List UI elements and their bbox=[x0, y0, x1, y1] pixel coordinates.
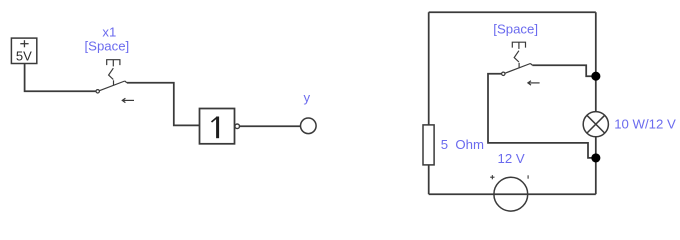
svg-text:5V: 5V bbox=[16, 49, 32, 64]
svg-text:x1: x1 bbox=[102, 24, 116, 39]
wire left side lower bbox=[428, 165, 430, 194]
plus mark bbox=[490, 175, 494, 179]
wire bottom side (through source) bbox=[429, 193, 596, 195]
switch S2 (pushbutton, normally open) bbox=[502, 42, 540, 85]
pivot contact circle bbox=[502, 72, 505, 75]
power supply B1 12V circle bbox=[494, 177, 528, 211]
svg-text:y: y bbox=[304, 90, 311, 105]
wire right side lower bbox=[595, 137, 597, 194]
direction arrow bbox=[123, 99, 134, 101]
wire from V1 to switch X1 bbox=[25, 64, 96, 92]
wire right side upper bbox=[595, 12, 597, 111]
svg-text:12 V: 12 V bbox=[498, 151, 525, 166]
switch X1 (pushbutton, normally open) bbox=[96, 60, 134, 103]
pivot contact circle bbox=[96, 90, 99, 93]
wire top side bbox=[429, 11, 596, 13]
spring zigzag bbox=[109, 68, 114, 79]
spring zigzag bbox=[514, 51, 519, 62]
resistor R1 5 Ohm bbox=[423, 125, 434, 165]
inverter bubble bbox=[235, 124, 240, 129]
svg-text:[Space]: [Space] bbox=[493, 22, 538, 37]
junction node below lamp bbox=[591, 153, 600, 162]
actuator cap bbox=[107, 60, 120, 65]
output terminal y bbox=[301, 118, 317, 134]
wire S2 left terminal down and across to lamp bottom node bbox=[488, 74, 593, 158]
minus mark bbox=[527, 175, 529, 178]
digit 1 glyph (drawn) bbox=[216, 117, 219, 139]
blade bbox=[99, 81, 124, 91]
actuator stem bbox=[112, 60, 114, 67]
fixed contact bend bbox=[530, 64, 532, 66]
voltage source V1 5V box bbox=[11, 38, 36, 64]
actuation dash bbox=[518, 63, 520, 68]
lamp L1 bbox=[583, 112, 608, 137]
svg-text:[Space]: [Space] bbox=[85, 39, 130, 54]
wire S2 right terminal to lamp top node bbox=[533, 65, 593, 76]
actuator stem bbox=[518, 42, 520, 49]
wire gate output to terminal y bbox=[240, 125, 301, 127]
wire from X1 to gate U1 bbox=[127, 83, 199, 126]
gate U1 NOT (IEC symbol 1) bbox=[200, 109, 240, 144]
svg-text:5 Ohm: 5 Ohm bbox=[441, 137, 484, 152]
blade bbox=[505, 64, 530, 74]
actuator cap bbox=[512, 42, 525, 47]
actuation dash bbox=[113, 80, 115, 85]
wire left side upper (to resistor) bbox=[428, 12, 430, 125]
direction arrow bbox=[529, 82, 540, 84]
junction node above lamp bbox=[591, 72, 600, 81]
fixed contact bend bbox=[125, 81, 127, 83]
svg-text:10 W/12 V: 10 W/12 V bbox=[614, 116, 676, 131]
